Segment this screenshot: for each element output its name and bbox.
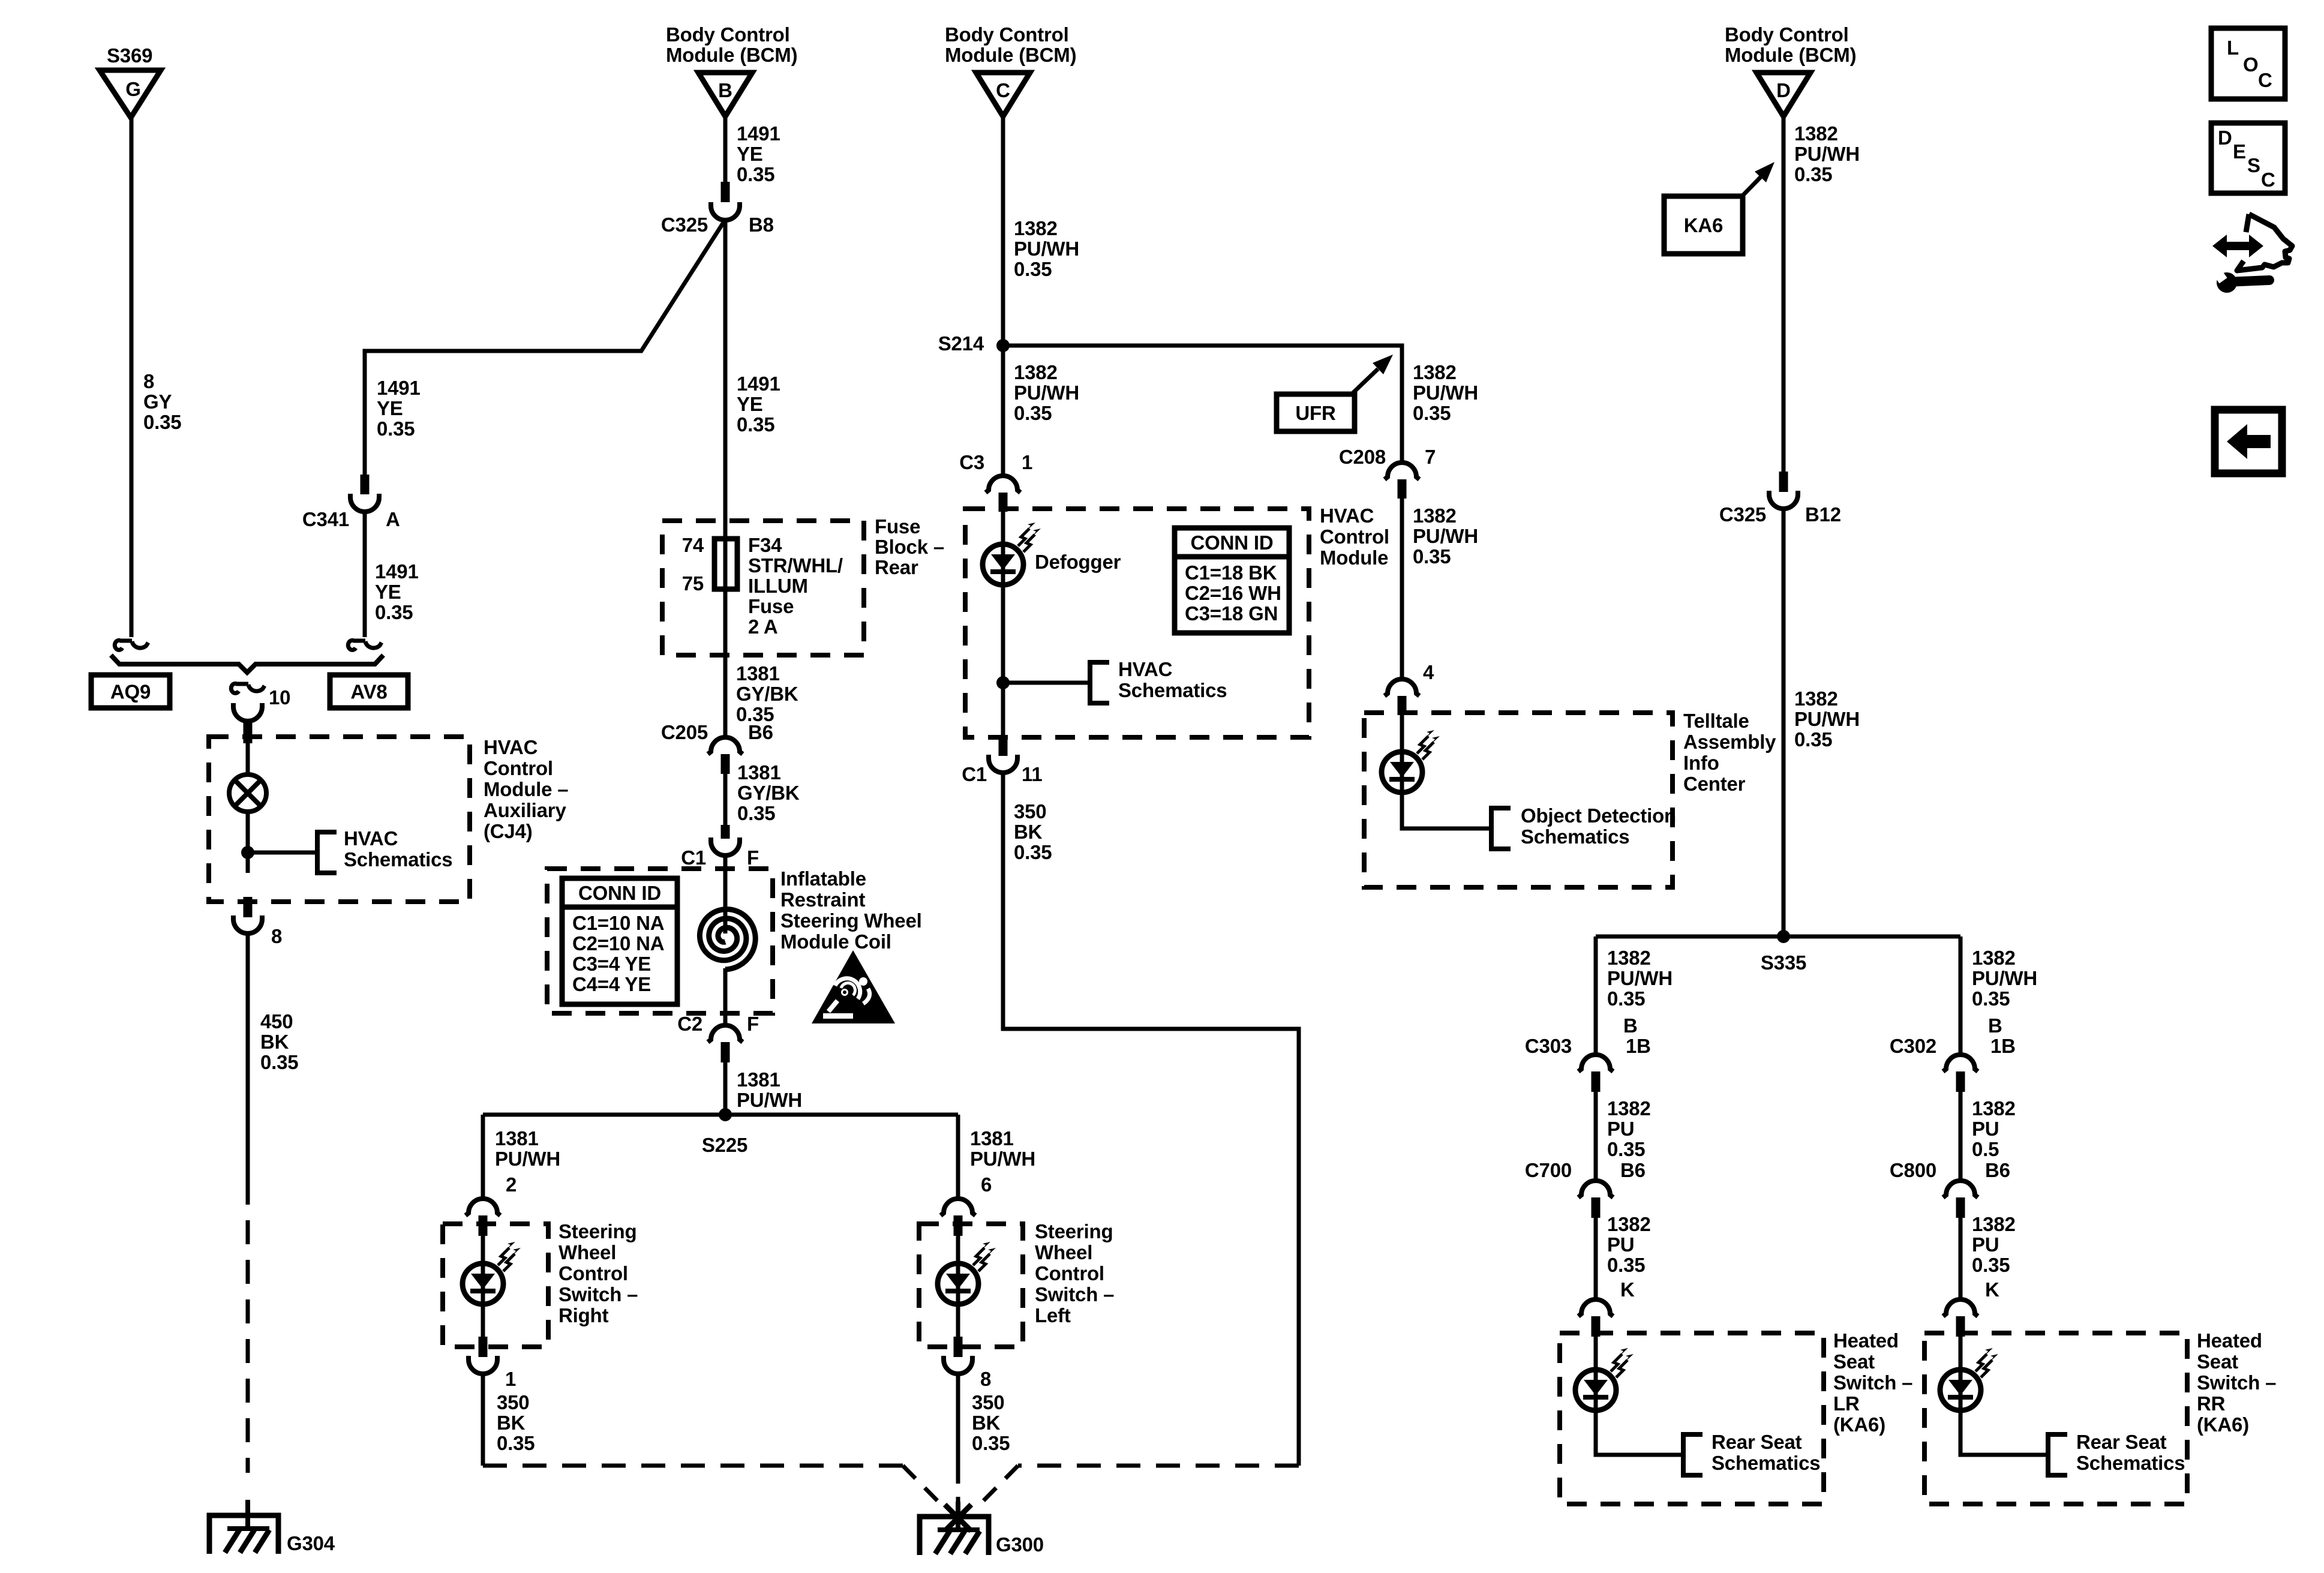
- svg-text:B: B: [1988, 1014, 2002, 1037]
- connector pin terminal at CJ4 exit: [244, 897, 253, 917]
- connector pin 4 terminal: [1398, 696, 1407, 715]
- splice S335 dot: [1777, 930, 1790, 943]
- icon wrench: [2227, 280, 2269, 282]
- svg-text:1: 1: [1022, 451, 1032, 473]
- HVAC schematics bracket (CJ4): [317, 832, 337, 873]
- ground G300: [920, 1517, 989, 1555]
- connector C302 terminal: [1956, 1071, 1965, 1092]
- heated seat LED RR: [1940, 1370, 1981, 1410]
- svg-text:F: F: [747, 846, 759, 869]
- icon back-arrow box: [2215, 410, 2282, 473]
- connector K terminal: [1592, 1316, 1601, 1337]
- wire S335 drop RR: [1959, 936, 1963, 1055]
- connector C1 pin F cup (coil): [711, 837, 740, 855]
- svg-text:C205: C205: [661, 721, 708, 743]
- wire S335 horizontal: [1596, 935, 1960, 939]
- svg-text:B6: B6: [748, 721, 773, 743]
- svg-text:Defogger: Defogger: [1035, 551, 1121, 573]
- svg-text:C1=10 NAC2=10 NAC3=4 YEC4=4 YE: C1=10 NAC2=10 NAC3=4 YEC4=4 YE: [572, 912, 664, 995]
- connector C303 terminal: [1592, 1071, 1601, 1092]
- wire 1382 PU/WH (C325 to S335): [1782, 508, 1786, 936]
- SIR coil spiral: [699, 909, 755, 969]
- connector C1 pin 11 cup: [989, 755, 1017, 773]
- svg-text:B: B: [1623, 1014, 1638, 1037]
- wire 1491 YE (C325-B8 to C341) diagonal+horizontal: [365, 220, 725, 475]
- dashed ground bus right: [1018, 1464, 1299, 1468]
- svg-text:1: 1: [505, 1368, 516, 1390]
- svg-text:AQ9: AQ9: [110, 681, 151, 703]
- connector pin 6 dome: [941, 1199, 975, 1215]
- connector pin 2 terminal: [479, 1215, 488, 1236]
- wire 1381 PU/WH drop to switch Left: [956, 1115, 960, 1199]
- fuse block rear dashed box: [662, 521, 864, 655]
- connector C1 pin 11 terminal: [999, 736, 1008, 756]
- svg-text:C3: C3: [959, 451, 984, 473]
- svg-text:C341: C341: [302, 508, 349, 530]
- svg-text:2: 2: [506, 1173, 517, 1196]
- svg-text:S335: S335: [1761, 951, 1806, 974]
- connector pin 1 terminal: [479, 1337, 488, 1357]
- svg-text:G300: G300: [996, 1533, 1044, 1556]
- rear seat bracket RR: [2048, 1434, 2067, 1475]
- wire 8 GY 0.35 (S369 to AQ9 brace): [130, 118, 134, 637]
- svg-text:Body ControlModule (BCM): Body ControlModule (BCM): [1725, 23, 1856, 66]
- wire into defogger LED: [1001, 512, 1005, 585]
- connector C325 pin B8 cup: [711, 202, 740, 220]
- CONN ID table (coil): [562, 878, 677, 1004]
- svg-text:K: K: [1985, 1278, 1999, 1301]
- connector 10 cup half: [233, 703, 262, 721]
- svg-text:8: 8: [980, 1368, 991, 1390]
- ground stem G304: [245, 1500, 250, 1527]
- wire heated LED LR to bracket: [1596, 1410, 1683, 1455]
- svg-text:S: S: [2247, 154, 2260, 176]
- wire 1382 PU (C700 to K): [1594, 1218, 1598, 1301]
- net box AQ9: [91, 675, 170, 708]
- wire junction to HVAC schematics bracket 2: [1003, 681, 1090, 685]
- svg-text:S369: S369: [107, 44, 152, 67]
- svg-text:B: B: [718, 79, 732, 101]
- connector C205 pin B6 dome: [708, 737, 743, 754]
- connector C3 pin 1 dome: [986, 476, 1020, 493]
- svg-text:75: 75: [682, 572, 704, 595]
- junction dot (CJ4): [241, 846, 254, 859]
- connector K terminal: [1956, 1316, 1965, 1337]
- connector C302 dome: [1943, 1055, 1978, 1071]
- connector C700 dome: [1578, 1181, 1613, 1197]
- svg-text:C325: C325: [661, 214, 708, 236]
- svg-text:4: 4: [1423, 661, 1434, 683]
- svg-text:6: 6: [981, 1173, 992, 1196]
- G300 convergence arrows: [945, 1505, 971, 1531]
- wire 350 BK to ground bus Left: [956, 1373, 960, 1466]
- svg-text:74: 74: [682, 534, 704, 556]
- connector C341 pin A cup: [350, 494, 379, 512]
- svg-text:E: E: [2233, 140, 2246, 163]
- steering wheel control switch Left dashed box: [919, 1224, 1023, 1347]
- connector C325 pin B8 terminal: [721, 182, 730, 202]
- connector C800 terminal: [1956, 1197, 1965, 1218]
- svg-text:L: L: [2227, 37, 2239, 59]
- svg-text:10: 10: [269, 686, 290, 709]
- connector C208 pin 7 dome: [1385, 463, 1419, 479]
- wire out of LED Left: [956, 1304, 960, 1337]
- object detection bracket: [1491, 808, 1511, 849]
- svg-text:11: 11: [1022, 763, 1043, 785]
- connector C1 pin F terminal (coil): [721, 825, 730, 839]
- connector C208 pin 7 terminal: [1398, 479, 1407, 499]
- svg-text:B8: B8: [749, 214, 774, 236]
- svg-text:C1=18 BKC2=16 WHC3=18 GN: C1=18 BKC2=16 WHC3=18 GN: [1185, 562, 1281, 625]
- ground G304: [209, 1515, 278, 1554]
- icon double arrow: [2212, 235, 2263, 257]
- connector 10 hook half: [231, 683, 265, 693]
- net box KA6: [1664, 196, 1743, 254]
- dashed diagonal right into G300: [981, 1466, 1018, 1503]
- connector C2 pin F terminal (coil): [721, 1042, 730, 1062]
- wire out of coil: [723, 968, 728, 1028]
- heated seat switch RR dashed box: [1924, 1333, 2187, 1504]
- wire 1381 GY/BK (fuse to C205): [723, 540, 728, 740]
- wire-end hook right (AV8 lead): [348, 640, 382, 650]
- connector K dome: [1578, 1299, 1613, 1316]
- svg-text:A: A: [386, 508, 400, 530]
- SIR caution triangle: [812, 950, 895, 1023]
- wire 350 BK to ground bus Right: [481, 1373, 485, 1466]
- connector C325 pin B12 cup: [1769, 491, 1798, 509]
- illumination lamp (CJ4): [229, 775, 266, 812]
- inflatable restraint coil dashed box: [547, 869, 773, 1013]
- connector pin terminal at CJ4 entry: [244, 723, 253, 743]
- svg-text:C303: C303: [1525, 1035, 1572, 1057]
- connector C325 pin B12 terminal: [1779, 472, 1788, 492]
- svg-text:G304: G304: [287, 1532, 335, 1554]
- steering wheel control switch Right dashed box: [443, 1224, 548, 1347]
- HVAC control module dashed box (defogger): [965, 509, 1309, 737]
- wire 1491 YE 0.35 (C325 to fuse block): [723, 220, 728, 541]
- svg-text:C325: C325: [1719, 503, 1766, 526]
- wire 1381 PU/WH (C2 to S225): [723, 1062, 728, 1115]
- illumination LED switch Right: [463, 1263, 503, 1304]
- connector C341 pin A terminal: [361, 475, 370, 494]
- arrow UFR to wire: [1352, 369, 1378, 394]
- heated seat switch LR dashed box: [1560, 1333, 1824, 1504]
- wire 1491 YE 0.35 (C341 to AV8 brace): [363, 511, 367, 637]
- connector C700 terminal: [1592, 1197, 1601, 1218]
- svg-text:8: 8: [271, 925, 282, 947]
- wire telltale LED to bracket: [1402, 792, 1491, 828]
- wire 1382 PU (C302 to C800): [1959, 1092, 1963, 1181]
- dashed ground bus left: [483, 1464, 903, 1468]
- wire into coil: [723, 854, 728, 933]
- svg-text:C700: C700: [1525, 1159, 1572, 1181]
- wire 1381 GY/BK (C205 to coil C1): [723, 774, 728, 825]
- wire 1382 PU (C800 to K): [1959, 1218, 1963, 1301]
- wire into heated LED LR: [1594, 1337, 1598, 1410]
- connector pin 6 terminal: [954, 1215, 963, 1236]
- defogger LED: [983, 544, 1023, 585]
- svg-text:C: C: [996, 79, 1010, 101]
- CONN ID table (HVAC): [1175, 528, 1289, 633]
- net box UFR: [1277, 394, 1355, 431]
- svg-text:C800: C800: [1890, 1159, 1936, 1181]
- svg-text:7: 7: [1425, 446, 1436, 468]
- svg-text:C1: C1: [962, 763, 987, 785]
- connector pin 1 cup: [469, 1356, 497, 1374]
- connector pin 2 dome: [466, 1199, 500, 1215]
- wire junction to HVAC schematics bracket: [248, 851, 317, 855]
- fuse F34 body: [714, 539, 737, 589]
- wire into heated LED RR: [1959, 1337, 1963, 1410]
- wire 1382 PU/WH (C to S214): [1001, 116, 1005, 346]
- connector pin 4 dome: [1385, 679, 1419, 696]
- svg-text:D: D: [1776, 79, 1791, 101]
- connector C3 pin 1 terminal: [999, 493, 1008, 512]
- connector C800 dome: [1943, 1181, 1978, 1197]
- svg-text:D: D: [2218, 127, 2232, 149]
- wire 450 BK 0.35 solid part: [246, 932, 250, 1181]
- junction dot (defogger): [996, 676, 1010, 689]
- connector pin 8 terminal: [954, 1337, 963, 1357]
- svg-text:C208: C208: [1339, 446, 1386, 468]
- wire heated LED RR to bracket: [1960, 1410, 2048, 1455]
- telltale assembly dashed box: [1364, 713, 1673, 887]
- icon vehicle hood outline: [2237, 214, 2292, 271]
- wire S214 to C3: [1001, 346, 1005, 477]
- connector C303 dome: [1578, 1055, 1613, 1071]
- svg-text:1B: 1B: [1990, 1035, 2016, 1057]
- wire out of LED Right: [481, 1304, 485, 1337]
- svg-text:O: O: [2243, 53, 2258, 76]
- wire S335 drop LR: [1594, 936, 1598, 1055]
- wire S214 branch to C208: [1003, 346, 1402, 463]
- svg-text:C: C: [2261, 169, 2275, 191]
- wire 350 BK (defogger to ground bus): [1003, 772, 1299, 1466]
- svg-text:C2: C2: [677, 1013, 702, 1035]
- wire 1381 PU/WH drop to switch Right: [481, 1115, 485, 1199]
- connector K dome: [1943, 1299, 1978, 1316]
- arrow KA6 to wire: [1741, 177, 1761, 197]
- svg-text:B6: B6: [1620, 1159, 1646, 1181]
- svg-text:UFR: UFR: [1295, 402, 1336, 424]
- wire 1382 PU (C303 to C700): [1594, 1092, 1598, 1181]
- wire-end hook left (AQ9 lead): [115, 640, 148, 650]
- svg-text:1B: 1B: [1626, 1035, 1651, 1057]
- svg-text:C1: C1: [681, 846, 706, 869]
- wire inside CJ4 to lamp: [246, 743, 250, 775]
- wire into LED Left: [956, 1236, 960, 1304]
- wire into LED Right: [481, 1236, 485, 1304]
- connector C205 pin B6 terminal: [721, 754, 730, 774]
- HVAC schematics bracket 2: [1090, 662, 1109, 703]
- connector 8 cup half: [233, 915, 262, 933]
- rear seat bracket LR: [1683, 1434, 1703, 1475]
- wire 450 BK dashed part: [246, 1181, 250, 1473]
- heated seat LED LR: [1575, 1370, 1616, 1410]
- ground-splice triangle G (S369): [100, 70, 161, 118]
- svg-text:AV8: AV8: [350, 681, 387, 703]
- wire into HVAC aux module: [246, 720, 250, 726]
- wire 1382 PU/WH (C208 to telltale): [1400, 499, 1404, 679]
- telltale LED: [1382, 752, 1422, 792]
- wire S225 horizontal: [483, 1113, 958, 1117]
- splice S225 dot: [719, 1108, 732, 1121]
- wire 1491 YE 0.35 (B to C325): [723, 116, 728, 182]
- connector C2 pin F dome (coil): [708, 1025, 743, 1042]
- splice S214 dot: [996, 339, 1010, 352]
- svg-text:C: C: [2258, 69, 2272, 91]
- HVAC control module auxiliary (CJ4) dashed box: [209, 737, 470, 902]
- wire into telltale LED: [1400, 715, 1404, 792]
- svg-text:S225: S225: [702, 1134, 747, 1156]
- net box AV8: [330, 675, 408, 708]
- svg-text:F: F: [747, 1013, 759, 1035]
- icon DESC box: [2211, 123, 2285, 193]
- svg-text:K: K: [1620, 1278, 1635, 1301]
- BCM triangle C: [976, 73, 1030, 116]
- wire LED to junction (defogger): [1001, 584, 1005, 736]
- BCM triangle D: [1756, 73, 1810, 116]
- svg-text:Body ControlModule (BCM): Body ControlModule (BCM): [945, 23, 1076, 66]
- wire 1382 PU/WH (D to C325-B12): [1782, 116, 1786, 472]
- icon LOC box: [2211, 28, 2285, 99]
- svg-text:B12: B12: [1805, 503, 1841, 526]
- brace joining AQ9/AV8 leads: [111, 655, 383, 673]
- dashed diagonal left into G300: [903, 1466, 939, 1503]
- svg-text:C302: C302: [1890, 1035, 1936, 1057]
- svg-text:Body ControlModule (BCM): Body ControlModule (BCM): [666, 23, 797, 66]
- wire lamp to junction: [246, 812, 250, 873]
- svg-text:KA6: KA6: [1684, 214, 1723, 236]
- svg-text:CONN ID: CONN ID: [1191, 532, 1274, 554]
- connector pin 8 cup: [944, 1356, 972, 1374]
- dashed drop left-switch into G300: [956, 1466, 960, 1503]
- illumination LED switch Left: [938, 1263, 978, 1304]
- svg-text:CONN ID: CONN ID: [578, 882, 661, 904]
- BCM triangle B: [698, 73, 752, 116]
- svg-text:S214: S214: [938, 332, 984, 355]
- svg-text:G: G: [125, 78, 140, 100]
- svg-text:B6: B6: [1985, 1159, 2010, 1181]
